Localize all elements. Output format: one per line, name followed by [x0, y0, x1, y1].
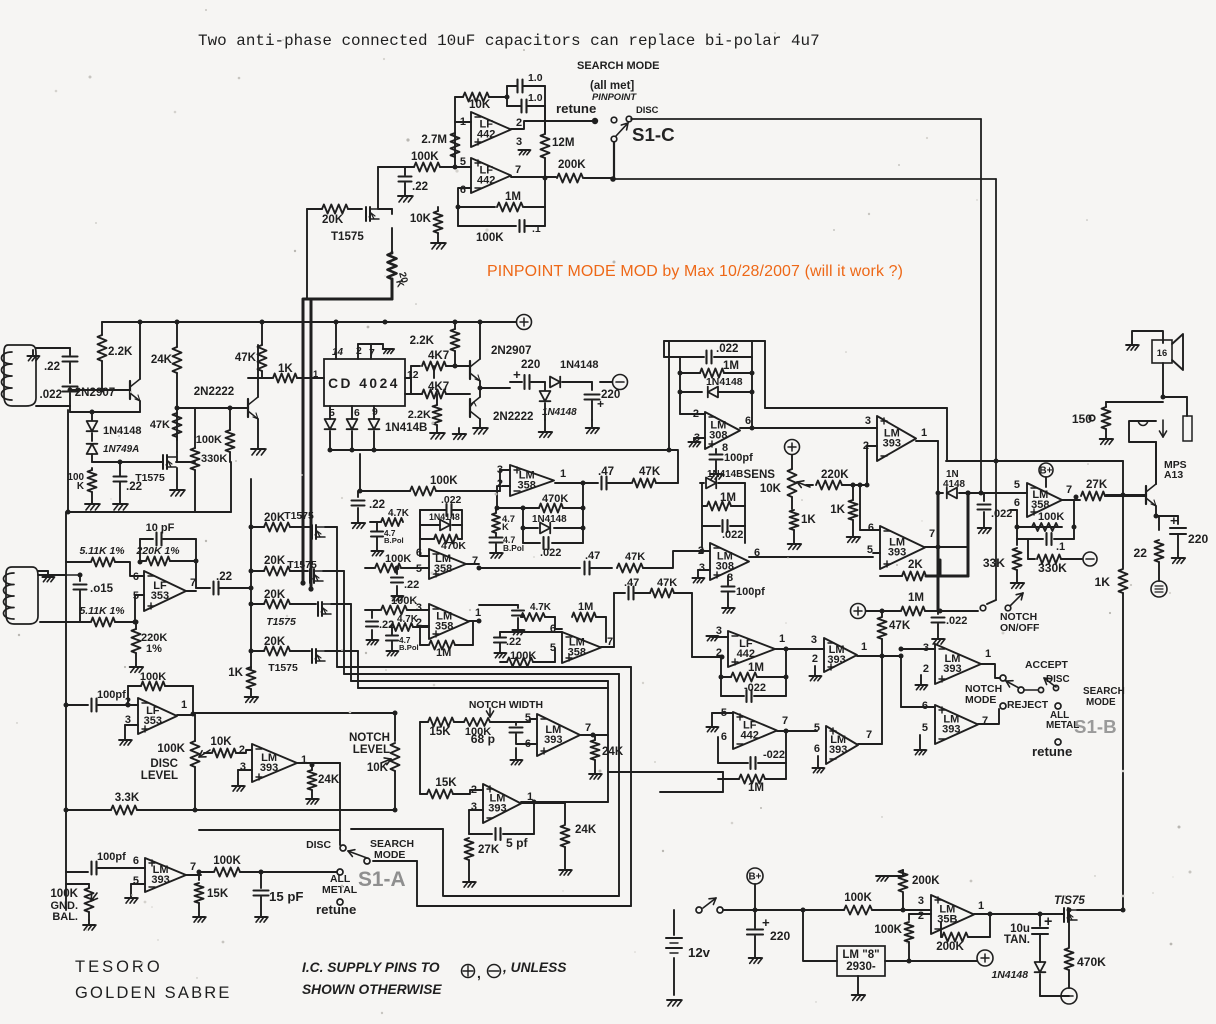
- svg-text:12v: 12v: [688, 945, 711, 960]
- svg-text:2.2K: 2.2K: [108, 346, 133, 358]
- svg-text:33K: 33K: [983, 556, 1005, 570]
- svg-text:442: 442: [477, 175, 495, 187]
- svg-text:393: 393: [943, 663, 961, 675]
- svg-text:100K: 100K: [1038, 511, 1064, 523]
- svg-text:1M: 1M: [578, 601, 593, 613]
- svg-text:1%: 1%: [146, 643, 162, 655]
- svg-text:.022: .022: [946, 615, 967, 627]
- svg-text:.47: .47: [585, 550, 600, 562]
- svg-text:24K: 24K: [575, 824, 597, 836]
- svg-text:5: 5: [922, 722, 928, 734]
- svg-text:B+: B+: [749, 872, 762, 883]
- svg-text:7: 7: [585, 722, 591, 734]
- svg-text:200K: 200K: [558, 159, 586, 171]
- svg-text:200K: 200K: [912, 875, 940, 887]
- svg-text:SEARCH: SEARCH: [370, 839, 414, 850]
- svg-text:2: 2: [698, 545, 704, 557]
- svg-text:393: 393: [888, 547, 906, 559]
- svg-text:12M: 12M: [552, 137, 574, 149]
- svg-text:100K: 100K: [391, 595, 417, 607]
- svg-text:1: 1: [560, 468, 566, 480]
- svg-text:4K7: 4K7: [428, 350, 449, 362]
- svg-text:47K: 47K: [150, 419, 170, 431]
- svg-text:.22: .22: [506, 636, 521, 648]
- svg-text:T1575: T1575: [268, 663, 298, 674]
- svg-text:20K: 20K: [264, 555, 286, 567]
- svg-text:393: 393: [151, 874, 169, 886]
- svg-text:ALL: ALL: [330, 874, 351, 885]
- svg-text:100K: 100K: [476, 232, 504, 244]
- svg-text:GOLDEN SABRE: GOLDEN SABRE: [75, 984, 232, 1002]
- svg-text:SEARCH: SEARCH: [1083, 686, 1125, 697]
- svg-text:METAL: METAL: [322, 885, 358, 896]
- svg-text:100K: 100K: [510, 650, 536, 662]
- svg-text:PINPOINT: PINPOINT: [592, 92, 637, 102]
- svg-text:20K: 20K: [264, 636, 286, 648]
- svg-text:1N4148: 1N4148: [560, 359, 599, 371]
- svg-text:100K: 100K: [140, 671, 166, 683]
- svg-text:2.7M: 2.7M: [421, 134, 447, 146]
- svg-text:SENS: SENS: [744, 469, 776, 481]
- svg-text:150: 150: [1072, 412, 1092, 426]
- svg-text:20K: 20K: [322, 214, 344, 226]
- svg-text:7: 7: [515, 164, 521, 176]
- svg-text:2N2222: 2N2222: [493, 411, 533, 423]
- svg-text:TIS75: TIS75: [1054, 895, 1085, 907]
- svg-text:B.Pol: B.Pol: [399, 643, 419, 652]
- svg-text:2930-: 2930-: [846, 961, 876, 973]
- svg-text:100K: 100K: [411, 151, 439, 163]
- svg-text:393: 393: [827, 654, 845, 666]
- svg-text:1M: 1M: [436, 647, 451, 659]
- svg-text:ON/OFF: ON/OFF: [1000, 623, 1039, 634]
- svg-text:27K: 27K: [1086, 479, 1108, 491]
- svg-text:10 pF: 10 pF: [146, 522, 175, 534]
- svg-text:1: 1: [181, 699, 187, 711]
- svg-text:+: +: [513, 367, 521, 382]
- svg-text:10K: 10K: [410, 213, 432, 225]
- svg-text:4K7: 4K7: [428, 381, 449, 393]
- svg-text:S1-B: S1-B: [1074, 716, 1117, 737]
- svg-text:+: +: [1044, 914, 1052, 930]
- svg-text:1M: 1M: [723, 360, 739, 372]
- svg-text:T1575: T1575: [287, 560, 317, 571]
- svg-text:10K: 10K: [367, 762, 389, 774]
- svg-text:1M: 1M: [748, 662, 764, 674]
- svg-text:6: 6: [416, 547, 422, 559]
- svg-text:6: 6: [354, 408, 360, 419]
- svg-text:K: K: [77, 481, 85, 492]
- svg-text:DISC: DISC: [150, 758, 178, 770]
- svg-text:.22: .22: [404, 579, 419, 591]
- svg-text:ACCEPT: ACCEPT: [1025, 660, 1069, 671]
- svg-text:16: 16: [1157, 348, 1167, 358]
- svg-text:3: 3: [471, 801, 477, 813]
- svg-text:100K: 100K: [50, 888, 78, 900]
- svg-text:REJECT: REJECT: [1007, 700, 1049, 711]
- svg-text:10K: 10K: [760, 483, 782, 495]
- svg-text:2: 2: [516, 117, 522, 129]
- svg-text:5.11K 1%: 5.11K 1%: [79, 606, 124, 617]
- svg-text:1K: 1K: [801, 514, 816, 526]
- svg-text:2N2907: 2N2907: [75, 387, 115, 399]
- svg-text:353: 353: [151, 590, 169, 602]
- svg-text:220: 220: [1188, 532, 1208, 546]
- svg-text:NOTCH: NOTCH: [1000, 612, 1037, 623]
- svg-text:4.7K: 4.7K: [530, 602, 552, 613]
- svg-text:24K: 24K: [151, 354, 173, 366]
- svg-text:6: 6: [745, 415, 751, 427]
- svg-text:BAL.: BAL.: [52, 911, 78, 923]
- svg-text:15 pF: 15 pF: [269, 889, 303, 904]
- svg-text:7: 7: [369, 348, 375, 359]
- svg-text:1: 1: [978, 900, 984, 912]
- svg-text:100K: 100K: [385, 553, 411, 565]
- svg-text:20K: 20K: [264, 512, 286, 524]
- svg-text:470K: 470K: [441, 541, 466, 552]
- svg-text:47K: 47K: [639, 466, 661, 478]
- svg-text:22: 22: [1134, 546, 1148, 560]
- svg-text:(all met]: (all met]: [590, 80, 634, 92]
- svg-text:358: 358: [434, 563, 452, 575]
- svg-text:1: 1: [921, 427, 927, 439]
- svg-text:-022: -022: [763, 749, 785, 761]
- svg-text:retune: retune: [556, 101, 596, 116]
- svg-text:10K: 10K: [210, 736, 232, 748]
- svg-text:B.Pol: B.Pol: [384, 536, 404, 545]
- svg-text:100K: 100K: [874, 924, 902, 936]
- svg-text:15K: 15K: [207, 888, 229, 900]
- svg-text:5: 5: [525, 712, 531, 724]
- svg-text:5: 5: [1014, 479, 1020, 491]
- svg-text:.22: .22: [412, 181, 428, 193]
- svg-text:DISC: DISC: [306, 840, 331, 851]
- svg-text:1N4148: 1N4148: [991, 970, 1028, 981]
- svg-text:K: K: [502, 522, 509, 532]
- svg-text:3.3K: 3.3K: [115, 792, 140, 804]
- svg-text:T1575: T1575: [331, 231, 364, 243]
- svg-text:12: 12: [407, 370, 419, 381]
- svg-text:470K: 470K: [542, 493, 568, 505]
- svg-text:6: 6: [721, 731, 727, 743]
- svg-text:LEVEL: LEVEL: [141, 770, 178, 782]
- svg-text:1K: 1K: [278, 363, 293, 375]
- svg-text:SEARCH MODE: SEARCH MODE: [577, 60, 660, 72]
- svg-text:.022: .022: [722, 529, 743, 541]
- svg-text:1M: 1M: [908, 592, 924, 604]
- svg-text:100pf: 100pf: [736, 586, 765, 598]
- svg-text:15K: 15K: [429, 726, 451, 738]
- svg-text:.22: .22: [216, 571, 232, 583]
- svg-text:B.Pol: B.Pol: [503, 544, 524, 553]
- svg-text:MODE: MODE: [965, 695, 996, 706]
- svg-text:A13: A13: [1164, 470, 1183, 481]
- svg-text:.47: .47: [598, 466, 614, 478]
- svg-text:1N749A: 1N749A: [103, 444, 139, 455]
- svg-text:.o15: .o15: [90, 583, 114, 595]
- svg-text:9: 9: [372, 407, 378, 418]
- svg-text:6: 6: [133, 571, 139, 583]
- svg-text:100pf: 100pf: [724, 452, 753, 464]
- svg-text:100K: 100K: [157, 743, 185, 755]
- svg-text:2: 2: [918, 910, 924, 922]
- svg-text:DISC: DISC: [636, 105, 659, 115]
- svg-text:1N4148: 1N4148: [542, 407, 577, 418]
- svg-text:4.7K: 4.7K: [388, 508, 410, 519]
- svg-text:7: 7: [866, 729, 872, 741]
- svg-text:.022: .022: [540, 547, 561, 559]
- svg-text:3: 3: [918, 895, 924, 907]
- svg-text:2: 2: [923, 663, 929, 675]
- svg-text:68 p: 68 p: [471, 732, 495, 746]
- svg-text:308: 308: [716, 561, 734, 573]
- svg-text:.1: .1: [532, 224, 541, 235]
- svg-text:358: 358: [568, 647, 586, 659]
- svg-text:7: 7: [1066, 484, 1072, 496]
- svg-text:330K: 330K: [1038, 561, 1067, 575]
- svg-text:MODE: MODE: [1086, 697, 1116, 708]
- svg-text:1: 1: [779, 633, 785, 645]
- svg-text:6: 6: [525, 738, 531, 750]
- svg-text:LEVEL: LEVEL: [353, 744, 390, 756]
- svg-text:47K: 47K: [235, 352, 257, 364]
- svg-text:1N414B: 1N414B: [707, 469, 743, 480]
- svg-text:10K: 10K: [469, 99, 491, 111]
- svg-text:393: 393: [544, 734, 562, 746]
- svg-text:.1: .1: [1056, 541, 1065, 553]
- svg-text:27K: 27K: [478, 844, 500, 856]
- svg-text:220: 220: [521, 359, 540, 371]
- svg-text:100K: 100K: [844, 892, 872, 904]
- svg-text:retune: retune: [316, 902, 356, 917]
- svg-text:2: 2: [356, 346, 362, 357]
- svg-text:24K: 24K: [318, 774, 340, 786]
- svg-text:353: 353: [144, 715, 162, 727]
- svg-text:3: 3: [416, 602, 422, 614]
- svg-text:5: 5: [814, 722, 820, 734]
- svg-text:3: 3: [811, 634, 817, 646]
- svg-text:retune: retune: [1032, 744, 1072, 759]
- svg-text:220K: 220K: [821, 469, 849, 481]
- svg-text:Two anti-phase connected 10uF: Two anti-phase connected 10uF capacitors…: [198, 32, 820, 50]
- svg-text:5: 5: [416, 563, 422, 575]
- svg-text:6: 6: [868, 522, 874, 534]
- svg-text:3: 3: [865, 415, 871, 427]
- svg-text:2: 2: [812, 653, 818, 665]
- svg-text:6: 6: [460, 184, 466, 196]
- svg-text:PINPOINT MODE MOD by Max 10/28: PINPOINT MODE MOD by Max 10/28/2007 (wil…: [487, 263, 903, 280]
- svg-text:4.7K: 4.7K: [397, 614, 419, 625]
- svg-text:NOTCH WIDTH: NOTCH WIDTH: [469, 700, 543, 711]
- svg-text:470K: 470K: [1077, 955, 1106, 969]
- svg-text:14: 14: [332, 347, 343, 358]
- svg-text:3: 3: [699, 562, 705, 574]
- svg-text:.22: .22: [369, 499, 385, 511]
- svg-text:1N4148: 1N4148: [532, 514, 567, 525]
- svg-text:1M: 1M: [720, 492, 736, 504]
- svg-text:15K: 15K: [435, 777, 457, 789]
- svg-text:1.0: 1.0: [528, 73, 543, 84]
- svg-text:3: 3: [240, 761, 246, 773]
- svg-text:5: 5: [133, 875, 139, 887]
- svg-text:2: 2: [471, 784, 477, 796]
- svg-text:, UNLESS: , UNLESS: [502, 960, 567, 975]
- svg-text:393: 393: [942, 724, 960, 736]
- svg-text:4148: 4148: [943, 479, 965, 490]
- svg-text:100pf: 100pf: [97, 851, 126, 863]
- svg-text:47K: 47K: [625, 551, 645, 563]
- svg-text:1N4148: 1N4148: [103, 425, 142, 437]
- svg-text:220: 220: [770, 929, 790, 943]
- svg-text:7: 7: [782, 715, 788, 727]
- svg-text:.022: .022: [441, 495, 462, 506]
- svg-text:S1-C: S1-C: [632, 124, 675, 145]
- svg-text:5 pf: 5 pf: [506, 836, 528, 850]
- svg-text:2: 2: [125, 696, 131, 708]
- svg-text:1N4148: 1N4148: [429, 512, 460, 522]
- svg-text:.22: .22: [44, 361, 60, 373]
- svg-text:,: ,: [477, 966, 481, 981]
- svg-text:6: 6: [1014, 497, 1020, 509]
- svg-text:1K: 1K: [228, 667, 243, 679]
- svg-text:MODE: MODE: [374, 850, 405, 861]
- svg-text:2N2222: 2N2222: [194, 386, 234, 398]
- svg-text:308: 308: [709, 430, 727, 442]
- svg-text:358: 358: [435, 621, 453, 633]
- svg-text:442: 442: [477, 129, 495, 141]
- svg-text:1: 1: [985, 648, 991, 660]
- svg-text:LM "8": LM "8": [842, 949, 879, 961]
- svg-text:20K: 20K: [264, 589, 286, 601]
- svg-text:393: 393: [488, 803, 506, 815]
- svg-text:1K: 1K: [1095, 575, 1111, 589]
- svg-text:+: +: [597, 397, 604, 411]
- svg-text:100K: 100K: [430, 475, 458, 487]
- svg-text:100K: 100K: [196, 434, 222, 446]
- svg-text:NOTCH: NOTCH: [349, 732, 390, 744]
- svg-text:442: 442: [741, 730, 759, 742]
- svg-text:2.2K: 2.2K: [410, 335, 435, 347]
- svg-text:1M: 1M: [748, 782, 764, 794]
- svg-text:5.11K 1%: 5.11K 1%: [79, 546, 124, 557]
- svg-text:2N2907: 2N2907: [491, 345, 531, 357]
- svg-text:1: 1: [861, 641, 867, 653]
- svg-text:100K: 100K: [213, 855, 241, 867]
- svg-text:1: 1: [475, 607, 481, 619]
- svg-text:B+: B+: [1040, 466, 1053, 477]
- svg-text:I.C. SUPPLY PINS TO: I.C. SUPPLY PINS TO: [302, 960, 440, 975]
- svg-text:358: 358: [1031, 499, 1049, 511]
- svg-text:100pf: 100pf: [97, 689, 126, 701]
- svg-text:2: 2: [239, 744, 245, 756]
- svg-text:47K: 47K: [657, 577, 677, 589]
- svg-text:1M: 1M: [505, 191, 521, 203]
- svg-text:5: 5: [867, 544, 873, 556]
- svg-text:358: 358: [518, 480, 536, 492]
- svg-text:.022: .022: [716, 343, 738, 355]
- svg-text:7: 7: [982, 715, 988, 727]
- svg-text:442: 442: [737, 648, 755, 660]
- svg-text:47K: 47K: [889, 620, 911, 632]
- svg-text:-022: -022: [744, 682, 766, 694]
- svg-text:220K 1%: 220K 1%: [136, 546, 180, 557]
- svg-text:7: 7: [472, 555, 478, 567]
- svg-text:1K: 1K: [830, 504, 845, 516]
- svg-text:+: +: [762, 915, 770, 930]
- svg-text:T1575: T1575: [266, 617, 296, 628]
- svg-text:393: 393: [829, 744, 847, 756]
- svg-text:1: 1: [301, 754, 307, 766]
- svg-text:TESORO: TESORO: [75, 958, 163, 976]
- svg-text:200K: 200K: [936, 941, 964, 953]
- svg-text:3: 3: [923, 642, 929, 654]
- svg-text:.22: .22: [126, 481, 142, 493]
- svg-text:2.2K: 2.2K: [408, 409, 431, 421]
- svg-text:.47: .47: [624, 577, 639, 589]
- svg-text:TAN.: TAN.: [1004, 934, 1030, 946]
- svg-text:6: 6: [133, 855, 139, 867]
- svg-text:+: +: [1170, 513, 1178, 528]
- svg-text:1N414B: 1N414B: [385, 422, 427, 434]
- svg-text:T1575: T1575: [284, 511, 314, 522]
- svg-text:3: 3: [516, 136, 522, 148]
- svg-text:393: 393: [883, 438, 901, 450]
- svg-text:1N4148: 1N4148: [706, 377, 743, 388]
- svg-text:S1-A: S1-A: [358, 868, 406, 891]
- svg-text:24K: 24K: [602, 746, 624, 758]
- svg-text:CD 4024: CD 4024: [328, 376, 400, 391]
- svg-text:5: 5: [133, 590, 139, 602]
- svg-text:7: 7: [190, 861, 196, 873]
- svg-text:393: 393: [260, 762, 278, 774]
- svg-text:NOTCH: NOTCH: [965, 684, 1002, 695]
- svg-text:SHOWN OTHERWISE: SHOWN OTHERWISE: [302, 982, 442, 997]
- svg-text:330K: 330K: [201, 453, 227, 465]
- svg-text:1.0: 1.0: [528, 93, 543, 104]
- svg-text:6: 6: [922, 700, 928, 712]
- svg-text:6: 6: [814, 743, 820, 755]
- svg-text:DISC: DISC: [1046, 674, 1070, 685]
- svg-text:7: 7: [929, 528, 935, 540]
- svg-text:.022: .022: [40, 389, 62, 401]
- svg-text:2K: 2K: [908, 559, 923, 571]
